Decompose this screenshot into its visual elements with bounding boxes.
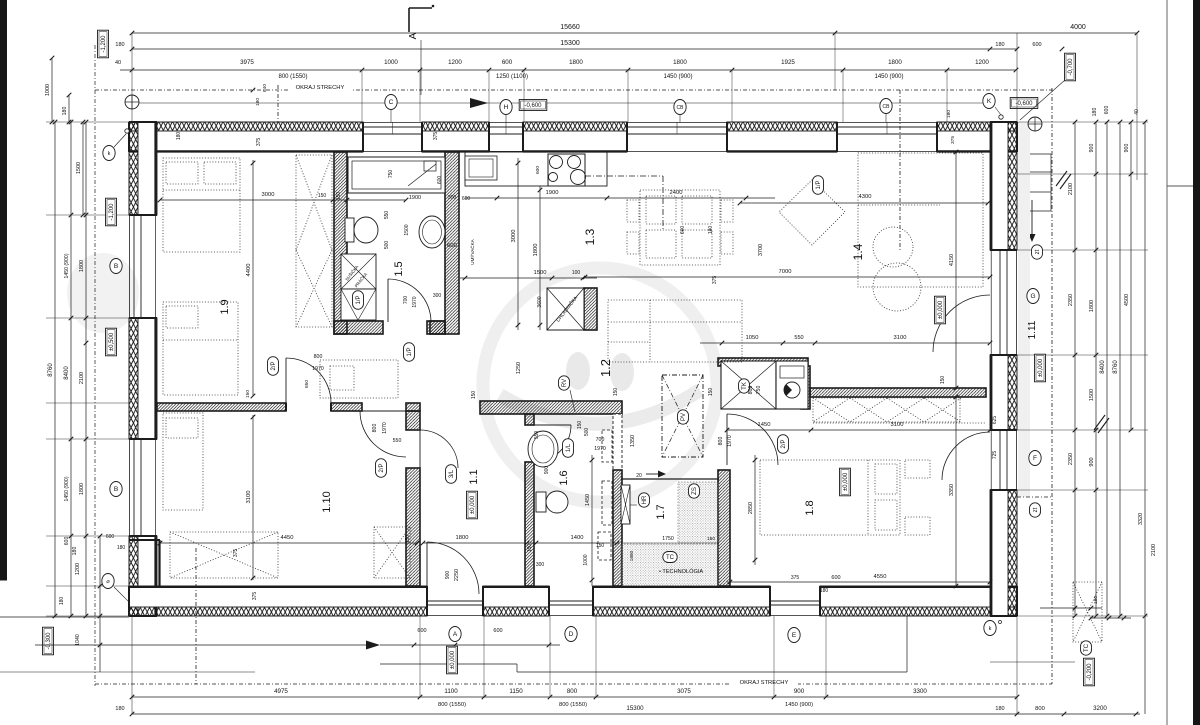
svg-text:1800: 1800 [888, 59, 902, 66]
washbasin 1.5 [419, 216, 445, 248]
svg-text:A: A [453, 631, 458, 638]
svg-text:1.5: 1.5 [393, 261, 405, 276]
svg-text:1200: 1200 [975, 59, 989, 66]
svg-text:A: A [408, 32, 419, 39]
svg-text:800: 800 [718, 437, 724, 446]
svg-text:150: 150 [708, 388, 714, 397]
svg-text:725: 725 [992, 451, 998, 460]
shaft dashed [613, 414, 622, 470]
desk 1.9 [320, 360, 398, 398]
svg-text:500: 500 [584, 428, 590, 437]
svg-text:15300: 15300 [626, 705, 644, 712]
svg-text:600: 600 [462, 196, 471, 202]
bed 1.9 bottom [163, 302, 238, 395]
door 1.10 [360, 411, 406, 457]
dining table 1.4 [640, 190, 720, 265]
svg-text:1000: 1000 [45, 84, 51, 96]
svg-text:15300: 15300 [560, 40, 580, 47]
svg-text:625: 625 [992, 416, 998, 425]
svg-text:1000: 1000 [384, 59, 398, 66]
svg-text:180: 180 [72, 547, 78, 556]
svg-text:TC: TC [1084, 643, 1090, 652]
svg-text:1970: 1970 [727, 435, 733, 447]
svg-text:40: 40 [115, 60, 121, 66]
wall 1.10 right [406, 411, 420, 430]
svg-text:650: 650 [304, 380, 310, 388]
page edge bars [0, 0, 7, 580]
svg-text:1250: 1250 [516, 362, 522, 374]
right margin dims [1017, 121, 1148, 123]
svg-text:1000: 1000 [583, 554, 589, 565]
svg-text:600: 600 [64, 537, 70, 546]
svg-text:800 (1550): 800 (1550) [278, 74, 307, 80]
svg-text:150: 150 [318, 193, 327, 199]
svg-text:1800: 1800 [79, 260, 85, 272]
svg-text:CB: CB [677, 105, 685, 111]
windows in left wall [128, 215, 130, 318]
bed 1.9 top [163, 158, 240, 252]
svg-text:3300: 3300 [913, 688, 927, 695]
svg-text:TC: TC [666, 555, 675, 561]
fridge [547, 288, 584, 330]
axis bubbles top [132, 102, 990, 104]
svg-text:1970: 1970 [382, 422, 388, 434]
interior dims 1.9 [160, 199, 406, 201]
svg-text:1900: 1900 [409, 195, 421, 201]
svg-text:1250 (1100): 1250 (1100) [496, 74, 528, 80]
svg-text:±0,000: ±0,000 [1038, 358, 1044, 377]
svg-text:-0,600: -0,600 [524, 103, 542, 109]
svg-text:3350: 3350 [949, 484, 955, 496]
door 1.9 [286, 358, 331, 403]
1.5 left wall [334, 152, 347, 334]
svg-text:2/P: 2/P [379, 463, 385, 472]
svg-text:150: 150 [336, 192, 342, 201]
svg-text:600: 600 [535, 166, 541, 174]
svg-text:1880: 1880 [629, 550, 635, 561]
entry arrow [1031, 200, 1033, 236]
svg-text:1.8: 1.8 [804, 500, 816, 515]
svg-text:1/P: 1/P [356, 295, 362, 304]
svg-text:3100: 3100 [894, 335, 907, 341]
svg-text:15660: 15660 [560, 24, 580, 31]
svg-text:2400: 2400 [670, 190, 683, 196]
svg-text:1925: 1925 [781, 59, 795, 66]
svg-text:900: 900 [544, 466, 550, 475]
svg-text:3/L: 3/L [449, 469, 455, 478]
svg-text:OKRAJ STRECHY: OKRAJ STRECHY [740, 680, 789, 686]
corridor/1.8 wall [810, 388, 986, 397]
door 1.1 west [420, 430, 458, 468]
svg-text:7000: 7000 [779, 269, 792, 275]
svg-text:640: 640 [262, 84, 268, 92]
canopy edge [899, 90, 901, 250]
bed 1.8 [760, 460, 900, 535]
interior dims 1.8 [727, 429, 990, 431]
PV floor drain [662, 375, 703, 457]
svg-text:1/P: 1/P [816, 180, 822, 189]
svg-text:-0,200: -0,200 [1087, 663, 1093, 681]
svg-text:1200: 1200 [448, 59, 462, 66]
entry steps top right [1018, 153, 1051, 155]
svg-text:150: 150 [596, 543, 605, 549]
svg-text:3200: 3200 [1093, 705, 1107, 712]
svg-text:550: 550 [794, 335, 803, 341]
svg-text:1040: 1040 [75, 634, 81, 646]
svg-text:RV: RV [562, 379, 568, 387]
windows in top wall [363, 121, 422, 123]
1.7 stippled floor [678, 482, 719, 543]
interior wall 1.9/1.10 [157, 403, 286, 411]
1.5 bottom wall + door [334, 321, 383, 334]
svg-text:ZS: ZS [692, 487, 698, 495]
svg-text:1800: 1800 [673, 59, 687, 66]
svg-text:4550: 4550 [874, 574, 887, 580]
svg-text:40: 40 [1134, 109, 1140, 115]
svg-text:-0,700: -0,700 [1068, 58, 1074, 76]
svg-text:180: 180 [820, 588, 829, 594]
svg-text:±0,000: ±0,000 [450, 650, 456, 669]
kitchen counter [465, 152, 607, 186]
svg-text:-0,600: -0,600 [1015, 101, 1033, 107]
top extension lines [361, 70, 363, 122]
svg-text:±0,000: ±0,000 [470, 495, 476, 514]
svg-text:3000: 3000 [262, 192, 275, 198]
toilet 1.5 [345, 218, 354, 242]
svg-text:150: 150 [940, 376, 946, 385]
svg-text:550: 550 [534, 431, 540, 440]
svg-text:1900: 1900 [546, 190, 559, 196]
svg-text:375: 375 [433, 132, 439, 141]
svg-text:1.4: 1.4 [851, 243, 865, 260]
svg-text:2250: 2250 [454, 569, 460, 581]
svg-text:1.10: 1.10 [321, 491, 333, 512]
svg-text:2100: 2100 [79, 372, 85, 384]
svg-text:3100: 3100 [891, 422, 904, 428]
svg-text:1800: 1800 [569, 59, 583, 66]
svg-text:300: 300 [433, 293, 442, 299]
wall pier below window B [129, 539, 160, 541]
TK closet [721, 361, 776, 409]
terrace 1.11 strip [1018, 122, 1030, 497]
svg-text:±0,000: ±0,000 [843, 472, 849, 491]
dresser 1.10 [170, 532, 278, 578]
1.6 dashed appliances [602, 430, 612, 462]
svg-text:PV: PV [681, 413, 687, 421]
svg-text:HR: HR [642, 495, 648, 504]
washer dryer column 1.5 [341, 254, 376, 289]
svg-text:1100: 1100 [444, 688, 458, 695]
svg-text:1.2: 1.2 [598, 359, 613, 377]
1.7 HR box [621, 485, 630, 524]
left margin dims [46, 121, 129, 123]
roof edge top [95, 89, 1052, 91]
svg-text:1450: 1450 [585, 494, 591, 506]
svg-text:150: 150 [527, 544, 533, 553]
svg-text:1750: 1750 [662, 536, 674, 542]
svg-text:750: 750 [756, 386, 762, 395]
svg-text:3600: 3600 [537, 296, 543, 307]
svg-text:1500: 1500 [404, 224, 410, 235]
svg-text:1.1: 1.1 [468, 469, 480, 484]
svg-text:1.11: 1.11 [1027, 320, 1038, 339]
wardrobe 1.9 [296, 155, 332, 327]
svg-text:4150: 4150 [949, 254, 955, 266]
bottom dim rows [132, 696, 1017, 698]
svg-text:150: 150 [245, 390, 251, 398]
svg-text:150: 150 [577, 421, 583, 430]
svg-text:900: 900 [445, 571, 451, 580]
wardrobes 1.8 [813, 398, 960, 422]
svg-text:1350: 1350 [630, 435, 636, 447]
svg-text:550: 550 [384, 211, 390, 220]
svg-text:1800: 1800 [456, 535, 469, 541]
svg-text:1450 (900): 1450 (900) [663, 74, 692, 80]
svg-text:2100: 2100 [1068, 183, 1074, 195]
door arc right G [933, 295, 990, 352]
svg-text:1450 (900): 1450 (900) [64, 476, 70, 501]
svg-text:1/L: 1/L [566, 443, 572, 452]
interior dims 1.10 [252, 415, 254, 580]
svg-text:180: 180 [1093, 596, 1099, 604]
sink [465, 156, 497, 180]
svg-text:4400: 4400 [246, 264, 252, 277]
svg-text:3000: 3000 [511, 230, 517, 243]
svg-text:1450 (900): 1450 (900) [874, 74, 903, 80]
svg-text:600: 600 [437, 176, 443, 185]
svg-text:1970: 1970 [412, 296, 418, 307]
section flag A [409, 7, 432, 9]
svg-text:UMÝVAČKA: UMÝVAČKA [469, 238, 475, 264]
svg-text:20: 20 [636, 473, 642, 479]
svg-text:1150: 1150 [509, 688, 523, 695]
svg-text:375: 375 [712, 276, 718, 285]
ground lines bottom left [0, 616, 129, 618]
svg-text:150: 150 [613, 388, 619, 397]
break marks [1056, 171, 1067, 186]
exterior right wall [1008, 122, 1017, 250]
svg-text:-0,300: -0,300 [46, 632, 52, 650]
svg-text:375: 375 [252, 592, 258, 601]
closet top wall [718, 358, 808, 366]
svg-text:2350: 2350 [1068, 453, 1074, 465]
door arc A bottom [427, 542, 479, 594]
svg-text:3100: 3100 [246, 491, 252, 504]
roof edge bottom [95, 683, 1052, 685]
door 1.6 [534, 425, 571, 462]
svg-text:3700: 3700 [758, 244, 764, 256]
svg-text:180: 180 [115, 42, 124, 48]
svg-text:300: 300 [448, 195, 457, 201]
svg-text:150: 150 [707, 536, 715, 542]
svg-text:700: 700 [403, 296, 409, 305]
svg-text:3075: 3075 [677, 688, 691, 695]
svg-text:900: 900 [794, 688, 805, 695]
svg-text:D: D [569, 631, 574, 638]
interior dims 1.1 / 1.6 [423, 542, 620, 544]
svg-text:8400: 8400 [64, 366, 70, 380]
svg-text:4500: 4500 [1124, 294, 1130, 306]
svg-text:1.3: 1.3 [583, 228, 597, 245]
svg-text:F: F [1033, 455, 1037, 462]
svg-text:8760: 8760 [1113, 360, 1119, 374]
svg-text:600: 600 [502, 59, 513, 66]
wall 1.7 right / 1.8 left [718, 470, 730, 586]
svg-text:1970: 1970 [594, 446, 606, 452]
door 1.8 [727, 414, 778, 465]
coffee table 1.4 diamond [779, 180, 845, 245]
sofa 1.4 [608, 300, 742, 362]
svg-text:3975: 3975 [240, 59, 254, 66]
svg-text:600: 600 [493, 628, 502, 634]
door ovals [268, 357, 279, 376]
1.6 washbasin [528, 431, 558, 467]
svg-text:4975: 4975 [274, 688, 288, 695]
svg-text:180: 180 [995, 706, 1004, 712]
1.5/1.3 divider [445, 152, 459, 334]
washer stub [801, 366, 810, 409]
left margin top [51, 58, 53, 122]
svg-text:1800: 1800 [533, 244, 539, 257]
TC outdoor unit [1073, 582, 1102, 642]
bottom extension lines [419, 616, 421, 697]
wall 1.6 right [613, 470, 622, 586]
svg-text:1800: 1800 [1089, 300, 1095, 312]
svg-text:375: 375 [791, 575, 800, 581]
svg-text:800: 800 [748, 386, 754, 395]
svg-text:B: B [114, 486, 118, 493]
exterior left wall [129, 122, 138, 215]
svg-text:180: 180 [255, 98, 261, 106]
svg-text:4450: 4450 [281, 535, 294, 541]
washing machine [776, 361, 808, 409]
svg-text:OKRAJ STRECHY: OKRAJ STRECHY [296, 85, 345, 91]
svg-text:8400: 8400 [1100, 360, 1106, 374]
svg-text:±0,500: ±0,500 [109, 332, 115, 351]
svg-text:375: 375 [256, 138, 262, 147]
svg-text:180: 180 [995, 42, 1004, 48]
svg-text:1.6: 1.6 [558, 470, 570, 485]
svg-text:1050: 1050 [746, 335, 759, 341]
svg-text:1200: 1200 [75, 563, 81, 575]
svg-text:600: 600 [831, 575, 840, 581]
svg-text:2/P: 2/P [781, 439, 787, 448]
svg-text:600: 600 [417, 628, 426, 634]
svg-text:3320: 3320 [1138, 513, 1144, 525]
svg-text:300: 300 [536, 562, 545, 568]
right side labels [1032, 245, 1043, 259]
svg-text:180: 180 [946, 110, 952, 118]
svg-text:375: 375 [233, 549, 239, 558]
chairs 1.4 [873, 227, 913, 267]
svg-text:G: G [1030, 293, 1035, 300]
svg-text:150: 150 [405, 535, 411, 544]
bathtub 1.5 [348, 157, 445, 193]
bed 1.10 [163, 413, 203, 510]
svg-text:800: 800 [372, 424, 378, 433]
svg-text:k: k [108, 151, 111, 157]
svg-text:1500: 1500 [534, 270, 547, 276]
svg-text:750: 750 [388, 170, 394, 179]
svg-text:H: H [504, 104, 509, 111]
svg-text:150: 150 [471, 391, 477, 400]
lounge set 1.4 [858, 153, 983, 287]
svg-text:2100: 2100 [1151, 544, 1157, 556]
svg-text:1450: 1450 [758, 422, 771, 428]
svg-text:1800: 1800 [79, 483, 85, 495]
svg-text:k: k [989, 626, 992, 632]
svg-text:1500: 1500 [1089, 389, 1095, 401]
svg-text:800: 800 [567, 688, 578, 695]
svg-text:180: 180 [176, 132, 182, 141]
door openings in bottom wall [427, 615, 483, 617]
wall 1.1/1.6 divider [525, 414, 534, 425]
fridge stub wall [584, 288, 597, 330]
svg-text:1/P: 1/P [407, 347, 413, 356]
svg-text:2350: 2350 [1068, 294, 1074, 306]
svg-text:100: 100 [572, 270, 581, 276]
svg-text:B: B [114, 263, 118, 270]
svg-text:900: 900 [1124, 144, 1130, 153]
svg-text:600: 600 [447, 243, 457, 249]
svg-text:180: 180 [708, 226, 714, 235]
svg-text:700: 700 [596, 437, 605, 443]
svg-text:180: 180 [59, 597, 65, 606]
svg-text:2850: 2850 [748, 502, 754, 514]
interior dims living [585, 276, 990, 278]
corridor slope arrow [646, 473, 660, 475]
svg-text:1450 (900): 1450 (900) [64, 253, 70, 278]
svg-text:1500: 1500 [76, 162, 82, 174]
svg-text:180: 180 [115, 706, 124, 712]
svg-text:800: 800 [1035, 706, 1045, 712]
wall above 1.1/1.6 [480, 401, 622, 414]
svg-text:550: 550 [393, 438, 402, 444]
svg-text:4000: 4000 [1070, 24, 1086, 31]
svg-text:500: 500 [384, 241, 390, 250]
svg-text:2/P: 2/P [271, 361, 277, 370]
svg-text:±0,000: ±0,000 [938, 300, 944, 319]
svg-text:600: 600 [106, 534, 115, 540]
svg-text:1400: 1400 [571, 535, 584, 541]
svg-text:zt: zt [1035, 249, 1041, 254]
top dimension rows [132, 32, 1137, 34]
svg-text:1.7: 1.7 [655, 504, 667, 519]
svg-text:• TECHNOLÓGIA: • TECHNOLÓGIA [659, 568, 703, 575]
svg-text:800: 800 [314, 354, 323, 360]
exterior bottom wall [129, 607, 427, 616]
svg-text:K: K [987, 98, 992, 105]
svg-text:-1,200: -1,200 [101, 35, 107, 53]
svg-text:180: 180 [62, 107, 68, 116]
stove [548, 154, 585, 186]
wardrobe 1.10 [374, 527, 410, 578]
svg-text:C: C [389, 99, 394, 106]
svg-text:800 (1550): 800 (1550) [438, 702, 466, 708]
svg-text:-1,200: -1,200 [109, 203, 115, 221]
svg-text:180: 180 [117, 545, 126, 551]
exterior top wall [129, 122, 363, 131]
svg-text:4300: 4300 [859, 194, 872, 200]
door arc right F [942, 432, 990, 480]
watermark smiley [67, 253, 717, 502]
svg-text:600: 600 [1032, 42, 1041, 48]
svg-text:800 (1550): 800 (1550) [559, 702, 587, 708]
svg-text:600: 600 [680, 226, 686, 235]
svg-text:1.9: 1.9 [219, 299, 231, 314]
svg-text:900: 900 [1089, 457, 1095, 466]
svg-text:8760: 8760 [48, 363, 54, 377]
